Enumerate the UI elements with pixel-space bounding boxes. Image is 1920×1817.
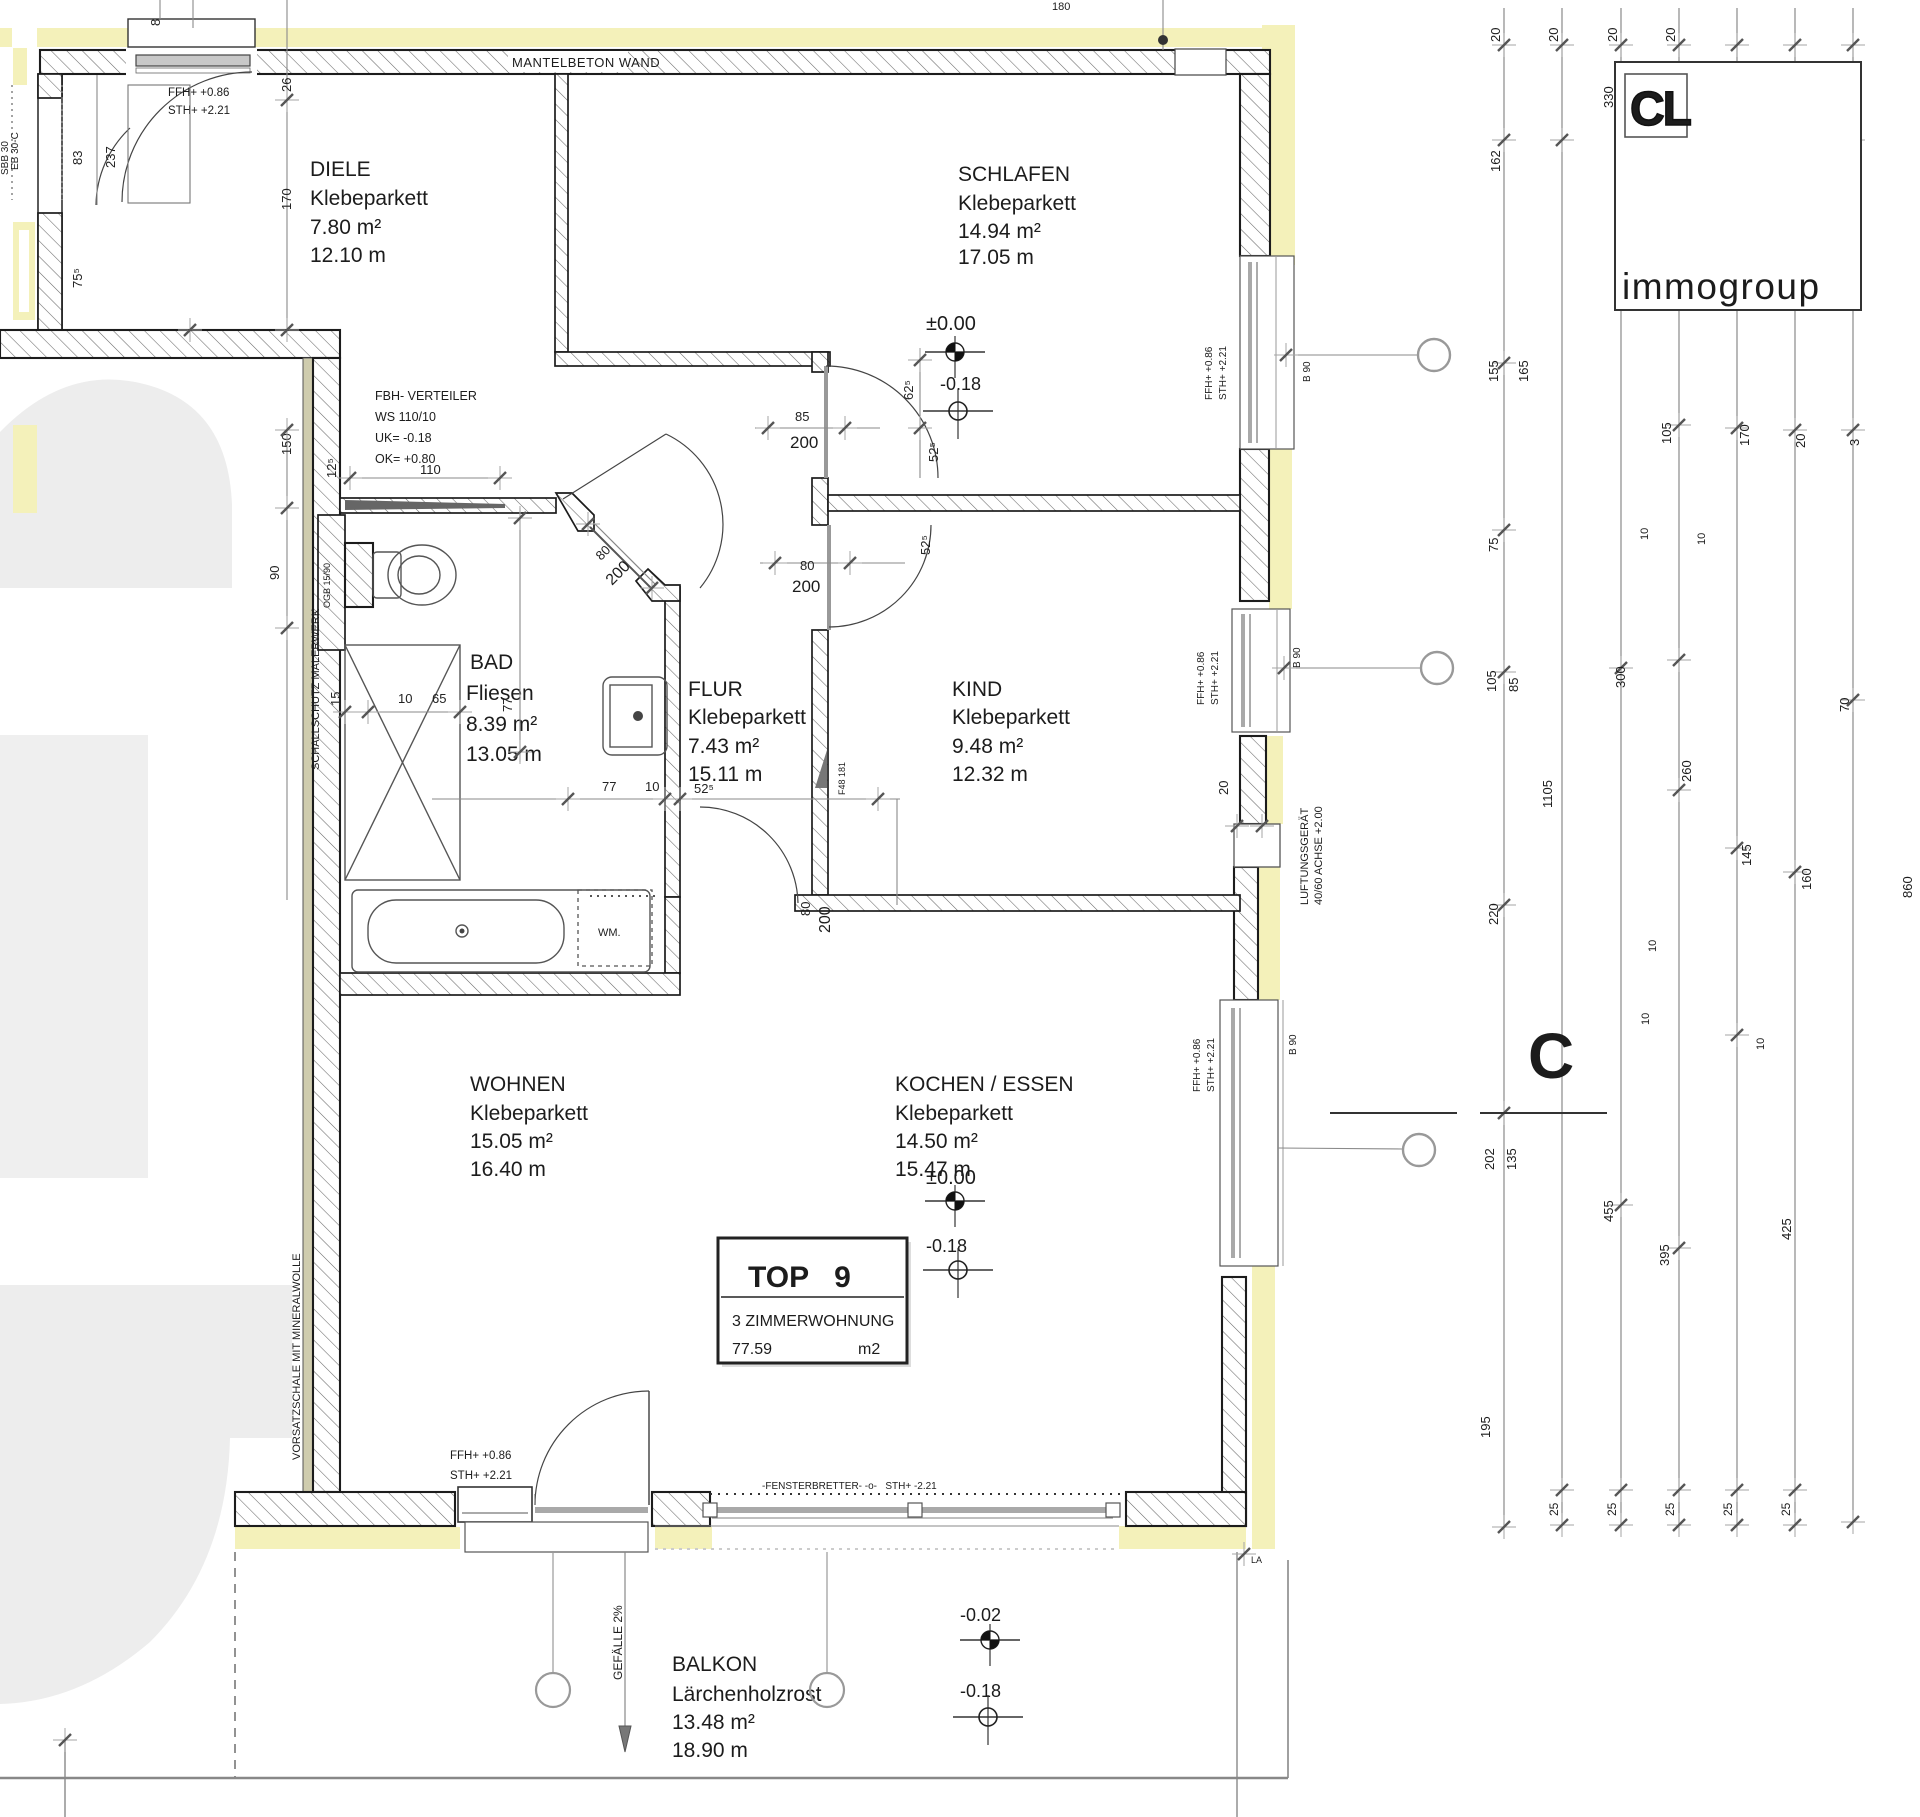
svg-text:FFH+ +0.86: FFH+ +0.86 [1196, 651, 1207, 705]
svg-text:75⁵: 75⁵ [70, 268, 85, 288]
svg-text:200: 200 [817, 906, 834, 933]
svg-text:GEFÄLLE 2%: GEFÄLLE 2% [611, 1605, 625, 1680]
svg-text:KIND: KIND [952, 678, 1002, 701]
svg-text:15: 15 [328, 692, 343, 706]
svg-text:330: 330 [1601, 86, 1616, 108]
svg-text:Klebeparkett: Klebeparkett [895, 1102, 1013, 1125]
svg-text:10: 10 [1755, 1038, 1767, 1050]
svg-text:B 90: B 90 [1288, 1034, 1299, 1055]
svg-text:20: 20 [1488, 28, 1503, 42]
svg-text:13.05 m: 13.05 m [466, 743, 542, 766]
svg-text:-0.18: -0.18 [960, 1681, 1001, 1701]
svg-text:9.48 m²: 9.48 m² [952, 735, 1023, 758]
svg-text:10: 10 [1640, 1013, 1652, 1025]
svg-text:10: 10 [1647, 940, 1659, 952]
svg-text:MANTELBETON WAND: MANTELBETON WAND [512, 55, 660, 70]
svg-text:860: 860 [1900, 876, 1915, 898]
svg-text:52⁵: 52⁵ [926, 442, 941, 462]
svg-text:WM.: WM. [598, 927, 621, 939]
svg-text:FFH+ +0.86: FFH+ +0.86 [450, 1450, 511, 1462]
svg-text:20: 20 [1546, 28, 1561, 42]
svg-text:145: 145 [1739, 844, 1754, 866]
svg-text:Klebeparkett: Klebeparkett [688, 706, 806, 729]
svg-text:FFH+ +0.86: FFH+ +0.86 [1192, 1038, 1203, 1092]
svg-text:3 ZIMMERWOHNUNG: 3 ZIMMERWOHNUNG [732, 1313, 894, 1330]
svg-text:160: 160 [1799, 868, 1814, 890]
svg-text:10: 10 [645, 779, 659, 794]
svg-text:SCHALLSCHUTZ MALERWERK: SCHALLSCHUTZ MALERWERK [310, 608, 322, 770]
svg-text:83: 83 [70, 151, 85, 165]
svg-text:105: 105 [1659, 422, 1674, 444]
svg-text:10: 10 [1639, 528, 1651, 540]
svg-text:20: 20 [1216, 781, 1231, 795]
svg-text:Klebeparkett: Klebeparkett [952, 706, 1070, 729]
svg-text:Klebeparkett: Klebeparkett [310, 187, 428, 210]
svg-text:-0.18: -0.18 [926, 1236, 967, 1256]
svg-text:Klebeparkett: Klebeparkett [958, 192, 1076, 215]
svg-text:80: 80 [593, 542, 614, 563]
svg-text:20: 20 [1605, 28, 1620, 42]
svg-text:75: 75 [1486, 538, 1501, 552]
svg-text:15.05 m²: 15.05 m² [470, 1130, 553, 1153]
svg-text:52⁵: 52⁵ [694, 781, 714, 796]
svg-text:52⁵: 52⁵ [918, 535, 933, 555]
svg-text:18.90 m: 18.90 m [672, 1739, 748, 1762]
svg-text:25: 25 [1547, 1502, 1561, 1516]
svg-text:STH+ +2.21: STH+ +2.21 [1218, 346, 1229, 400]
svg-text:237: 237 [103, 146, 118, 168]
svg-text:WOHNEN: WOHNEN [470, 1073, 566, 1096]
svg-text:85: 85 [1506, 678, 1521, 692]
svg-text:165: 165 [1516, 360, 1531, 382]
svg-text:7.43 m²: 7.43 m² [688, 735, 759, 758]
svg-text:Klebeparkett: Klebeparkett [470, 1102, 588, 1125]
svg-text:10: 10 [1696, 533, 1708, 545]
svg-text:195: 195 [1478, 1416, 1493, 1438]
svg-text:260: 260 [1679, 760, 1694, 782]
svg-text:26: 26 [279, 78, 294, 92]
svg-text:77: 77 [500, 698, 515, 712]
svg-text:80: 80 [798, 902, 813, 916]
svg-text:1105: 1105 [1540, 780, 1555, 808]
svg-text:C: C [1528, 1020, 1574, 1092]
svg-text:FBH- VERTEILER: FBH- VERTEILER [375, 389, 477, 403]
svg-text:395: 395 [1657, 1244, 1672, 1266]
svg-text:170: 170 [279, 188, 294, 210]
svg-text:14.50 m²: 14.50 m² [895, 1130, 978, 1153]
svg-text:Lärchenholzrost: Lärchenholzrost [672, 1683, 822, 1706]
svg-text:DIELE: DIELE [310, 158, 371, 181]
svg-text:KOCHEN / ESSEN: KOCHEN / ESSEN [895, 1073, 1074, 1096]
svg-text:14.94 m²: 14.94 m² [958, 220, 1041, 243]
svg-text:F48 181: F48 181 [837, 762, 847, 795]
svg-text:90: 90 [267, 566, 282, 580]
svg-text:m2: m2 [858, 1341, 880, 1358]
svg-text:±0.00: ±0.00 [926, 1167, 976, 1189]
svg-text:20: 20 [1663, 28, 1678, 42]
svg-text:200: 200 [603, 558, 634, 589]
svg-text:200: 200 [790, 433, 818, 452]
svg-text:16.40 m: 16.40 m [470, 1158, 546, 1181]
svg-text:155: 155 [1486, 360, 1501, 382]
svg-text:220: 220 [1486, 903, 1501, 925]
svg-text:±0.00: ±0.00 [926, 313, 976, 335]
svg-text:25: 25 [1663, 1502, 1677, 1516]
svg-text:12⁵: 12⁵ [324, 458, 339, 478]
svg-text:SCHLAFEN: SCHLAFEN [958, 163, 1070, 186]
svg-text:3: 3 [1847, 439, 1862, 446]
svg-text:12.10 m: 12.10 m [310, 244, 386, 267]
svg-text:STH+ +2.21: STH+ +2.21 [450, 1470, 512, 1482]
svg-text:BAD: BAD [470, 651, 513, 674]
svg-text:77.59: 77.59 [732, 1341, 772, 1358]
svg-text:LUFTUNGSGERÄT: LUFTUNGSGERÄT [1299, 808, 1311, 905]
svg-text:80: 80 [800, 558, 814, 573]
svg-text:25: 25 [1721, 1502, 1735, 1516]
svg-text:FLUR: FLUR [688, 678, 743, 701]
svg-text:STH+ +2.21: STH+ +2.21 [1206, 1038, 1217, 1092]
svg-text:162: 162 [1488, 150, 1503, 172]
svg-text:STH+ +2.21: STH+ +2.21 [168, 105, 230, 117]
svg-text:7.80 m²: 7.80 m² [310, 216, 381, 239]
svg-text:FFH+ +0.86: FFH+ +0.86 [1204, 346, 1215, 400]
svg-text:-0.02: -0.02 [960, 1605, 1001, 1625]
svg-text:UK= -0.18: UK= -0.18 [375, 431, 432, 445]
svg-text:70: 70 [1837, 698, 1852, 712]
svg-text:8.39 m²: 8.39 m² [466, 713, 537, 736]
svg-text:170: 170 [1737, 424, 1752, 446]
svg-text:110: 110 [420, 462, 441, 477]
svg-text:17.05 m: 17.05 m [958, 246, 1034, 269]
svg-text:40/60 ACHSE +2.00: 40/60 ACHSE +2.00 [1313, 806, 1325, 905]
svg-text:77: 77 [602, 779, 616, 794]
svg-text:65: 65 [432, 691, 446, 706]
svg-text:105: 105 [1484, 670, 1499, 692]
svg-text:EB 30-C: EB 30-C [10, 132, 21, 170]
svg-text:STH+ +2.21: STH+ +2.21 [1210, 651, 1221, 705]
svg-text:62⁵: 62⁵ [901, 380, 916, 400]
svg-text:B 90: B 90 [1292, 647, 1303, 668]
svg-text:8: 8 [148, 19, 163, 26]
svg-text:OGB 15/90: OGB 15/90 [322, 563, 332, 608]
svg-text:immogroup: immogroup [1622, 266, 1821, 307]
svg-text:25: 25 [1605, 1502, 1619, 1516]
svg-text:12.32 m: 12.32 m [952, 763, 1028, 786]
svg-text:-FENSTERBRETTER- -o- STH+ -2: -FENSTERBRETTER- -o- STH+ -2.21 [762, 1481, 937, 1492]
svg-text:10: 10 [398, 691, 412, 706]
svg-text:455: 455 [1601, 1200, 1616, 1222]
svg-text:20: 20 [1793, 434, 1808, 448]
svg-text:202: 202 [1482, 1148, 1497, 1170]
svg-text:300: 300 [1613, 666, 1628, 688]
svg-text:VORSATZSCHALE MIT MINERALWOLLE: VORSATZSCHALE MIT MINERALWOLLE [291, 1253, 303, 1460]
svg-text:B 90: B 90 [1302, 361, 1313, 382]
svg-text:425: 425 [1779, 1218, 1794, 1240]
svg-text:CL: CL [1630, 83, 1691, 136]
svg-text:FFH+ +0.86: FFH+ +0.86 [168, 87, 229, 99]
svg-text:200: 200 [792, 577, 820, 596]
svg-text:13.48 m²: 13.48 m² [672, 1711, 755, 1734]
svg-text:SBB 30: SBB 30 [0, 141, 11, 175]
svg-text:-0.18: -0.18 [940, 374, 981, 394]
svg-text:LA: LA [1251, 1555, 1262, 1565]
svg-text:85: 85 [795, 409, 809, 424]
svg-text:25: 25 [1779, 1502, 1793, 1516]
svg-text:WS 110/10: WS 110/10 [375, 410, 436, 424]
svg-text:BALKON: BALKON [672, 1653, 757, 1676]
svg-text:180: 180 [1052, 1, 1070, 13]
svg-text:TOP 9: TOP 9 [748, 1261, 851, 1294]
svg-text:135: 135 [1504, 1148, 1519, 1170]
